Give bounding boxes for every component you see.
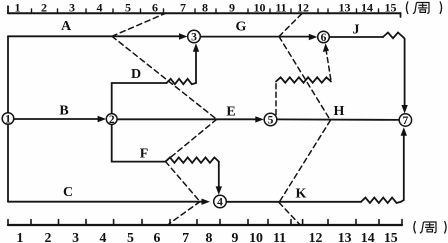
- dashed link E junction to F junction: [166, 119, 217, 161]
- svg-text:A: A: [61, 19, 72, 34]
- node 5: [264, 113, 277, 126]
- activity B line: [14, 118, 98, 120]
- node 4: [214, 195, 227, 208]
- svg-text:2: 2: [45, 230, 52, 243]
- svg-text:13: 13: [338, 230, 352, 243]
- dashed link H junction to K line: [279, 120, 330, 202]
- free float wave on F: [166, 157, 219, 162]
- arrowhead E into node 5: [255, 116, 263, 122]
- top ruler line: [8, 12, 401, 14]
- svg-text:4: 4: [217, 197, 223, 209]
- arrowhead F into node 4: [216, 186, 222, 195]
- svg-text:C: C: [63, 185, 73, 200]
- svg-text:15: 15: [384, 230, 398, 243]
- dashed link F junction to C line: [166, 162, 201, 202]
- arrowhead J into node 7 top: [401, 105, 407, 114]
- svg-text:6: 6: [152, 1, 158, 15]
- activity F wire from node 2: [112, 124, 166, 161]
- svg-text:15: 15: [385, 1, 397, 15]
- svg-text:11: 11: [273, 230, 286, 243]
- svg-text:9: 9: [232, 230, 239, 243]
- svg-text:1: 1: [5, 114, 11, 126]
- svg-text:B: B: [59, 104, 68, 119]
- activity K line: [227, 201, 361, 203]
- svg-text:12: 12: [309, 230, 323, 243]
- svg-text:4: 4: [100, 230, 107, 243]
- free float wave on K: [361, 198, 401, 203]
- svg-text:K: K: [296, 187, 307, 202]
- svg-text:7: 7: [403, 115, 409, 127]
- svg-text:D: D: [131, 67, 141, 82]
- svg-text:13: 13: [339, 1, 351, 15]
- svg-text:7: 7: [182, 230, 189, 243]
- free float wave between node 5 and 6: [276, 77, 331, 82]
- arrowhead dummy into node 6 bottom: [323, 43, 329, 52]
- arrowhead D into node 3: [193, 43, 199, 52]
- free float wave on D: [167, 79, 197, 84]
- svg-text:10: 10: [249, 230, 263, 243]
- svg-text:10: 10: [254, 1, 266, 15]
- svg-text:2: 2: [109, 114, 115, 126]
- top ruler start tick: [7, 6, 9, 13]
- arrowhead K into node 7 bottom: [401, 127, 407, 136]
- svg-text:8: 8: [202, 1, 208, 15]
- svg-text:1: 1: [17, 230, 24, 243]
- activity C line: [8, 201, 202, 203]
- svg-text:3: 3: [69, 1, 75, 15]
- D wire up to node 3: [195, 51, 197, 84]
- J corner wire down to node 7: [403, 37, 405, 107]
- svg-text:J: J: [353, 23, 360, 38]
- svg-text:5: 5: [125, 1, 131, 15]
- dashed riser wave to node 6: [326, 51, 331, 80]
- dashed link A junction to E line: [112, 36, 217, 119]
- svg-text:12: 12: [297, 1, 309, 15]
- svg-text:G: G: [236, 20, 247, 35]
- activity J line: [329, 36, 383, 38]
- F wire down to node 4: [218, 162, 220, 188]
- left spine wire: [7, 36, 9, 201]
- svg-text:3: 3: [191, 32, 197, 44]
- top ruler ticks: [32, 9, 379, 13]
- free float wave on J: [383, 33, 403, 39]
- dashed link G junction to H line: [279, 37, 330, 121]
- dashed projection C junction to bottom ruler: [169, 202, 200, 224]
- arrowhead C into node 4: [202, 199, 211, 205]
- svg-text:4: 4: [97, 1, 103, 15]
- svg-text:8: 8: [206, 230, 213, 243]
- activity H line: [277, 118, 400, 121]
- dashed riser node 5 to wave: [275, 82, 277, 115]
- arrowhead B into node 2: [98, 116, 107, 122]
- top ruler end tick: [400, 13, 402, 17]
- node 2: [106, 114, 117, 125]
- svg-text:H: H: [334, 104, 345, 119]
- svg-text:3: 3: [72, 230, 79, 243]
- svg-text:5: 5: [127, 230, 134, 243]
- svg-text:9: 9: [229, 1, 235, 15]
- activity D wire from node 2: [112, 83, 167, 114]
- bottom ruler line: [8, 224, 402, 226]
- svg-text:7: 7: [180, 1, 186, 15]
- svg-text:1: 1: [15, 1, 21, 15]
- node 7: [399, 114, 411, 126]
- activity E line: [117, 118, 256, 120]
- K corner wire up to node 7: [401, 135, 404, 202]
- arrowhead G into node 6: [309, 34, 318, 40]
- svg-text:6: 6: [321, 32, 327, 44]
- unit label (zhou) bottom: [414, 221, 446, 234]
- dashed projection G to top ruler: [279, 14, 302, 37]
- node 3: [188, 30, 201, 43]
- svg-text:5: 5: [268, 115, 274, 127]
- svg-text:14: 14: [361, 1, 373, 15]
- svg-text:14: 14: [361, 230, 375, 243]
- arrowhead A into node 3: [179, 33, 188, 39]
- activity G line: [200, 36, 309, 38]
- svg-text:11: 11: [275, 1, 286, 15]
- node 6: [318, 31, 330, 43]
- node 1: [2, 113, 14, 125]
- svg-text:2: 2: [41, 1, 47, 15]
- unit label (zhou) top: [406, 2, 441, 15]
- dashed projection K junction to bottom ruler: [279, 203, 300, 225]
- bottom ruler ticks: [8, 220, 402, 226]
- svg-text:F: F: [140, 147, 149, 162]
- activity A line: [8, 35, 180, 37]
- svg-text:6: 6: [154, 230, 161, 243]
- dashed projection A to top ruler: [112, 14, 165, 37]
- svg-text:E: E: [226, 104, 235, 119]
